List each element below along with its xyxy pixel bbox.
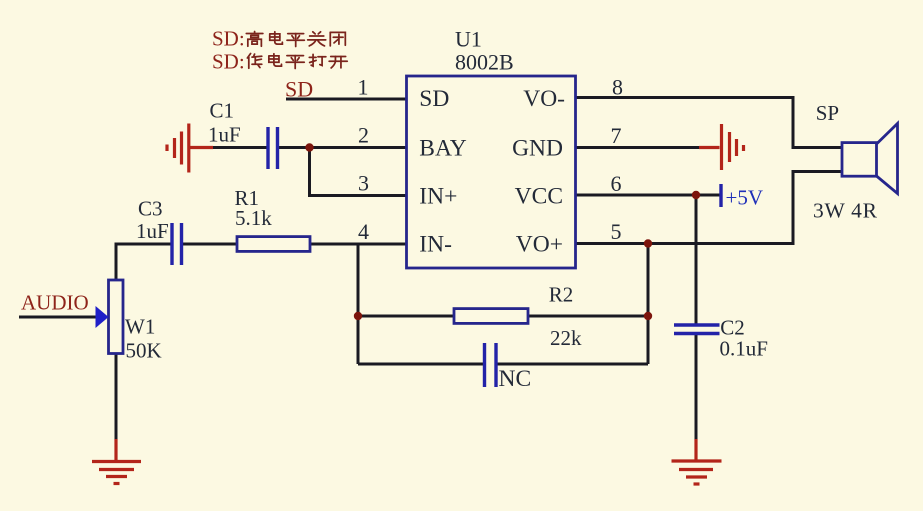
svg-text:VO-: VO- <box>523 86 565 112</box>
svg-text:C3: C3 <box>138 197 163 221</box>
svg-text:C1: C1 <box>210 99 235 123</box>
svg-text:8: 8 <box>612 75 623 100</box>
svg-text:6: 6 <box>611 171 622 196</box>
svg-text:8002B: 8002B <box>455 50 514 75</box>
svg-text:1: 1 <box>358 75 369 100</box>
svg-text:SD: SD <box>285 77 313 102</box>
svg-text:IN-: IN- <box>419 232 452 258</box>
svg-text:1uF: 1uF <box>208 123 241 147</box>
svg-text:3W 4R: 3W 4R <box>813 199 878 223</box>
svg-text:W1: W1 <box>125 315 155 339</box>
svg-text:+5V: +5V <box>726 186 764 210</box>
svg-text:2: 2 <box>358 123 369 148</box>
svg-text:50K: 50K <box>126 339 162 363</box>
svg-text:SD:: SD: <box>212 50 245 74</box>
svg-text:GND: GND <box>512 136 563 162</box>
svg-text:SD: SD <box>419 86 449 112</box>
svg-text:IN+: IN+ <box>419 184 457 210</box>
svg-text:1uF: 1uF <box>136 219 169 243</box>
svg-text:3: 3 <box>358 171 369 196</box>
svg-text:NC: NC <box>499 366 532 392</box>
svg-text:SP: SP <box>816 101 839 125</box>
svg-text:5: 5 <box>611 219 622 244</box>
svg-text:SD:: SD: <box>212 27 245 51</box>
svg-text:0.1uF: 0.1uF <box>720 337 768 361</box>
svg-text:U1: U1 <box>455 27 482 52</box>
svg-text:7: 7 <box>611 123 622 148</box>
svg-text:AUDIO: AUDIO <box>21 291 89 315</box>
svg-text:BAY: BAY <box>419 136 466 162</box>
svg-text:R2: R2 <box>549 283 574 307</box>
svg-text:5.1k: 5.1k <box>235 206 272 230</box>
svg-text:VO+: VO+ <box>516 232 563 258</box>
svg-text:VCC: VCC <box>515 184 563 210</box>
svg-text:22k: 22k <box>550 326 582 350</box>
svg-text:4: 4 <box>358 219 369 244</box>
